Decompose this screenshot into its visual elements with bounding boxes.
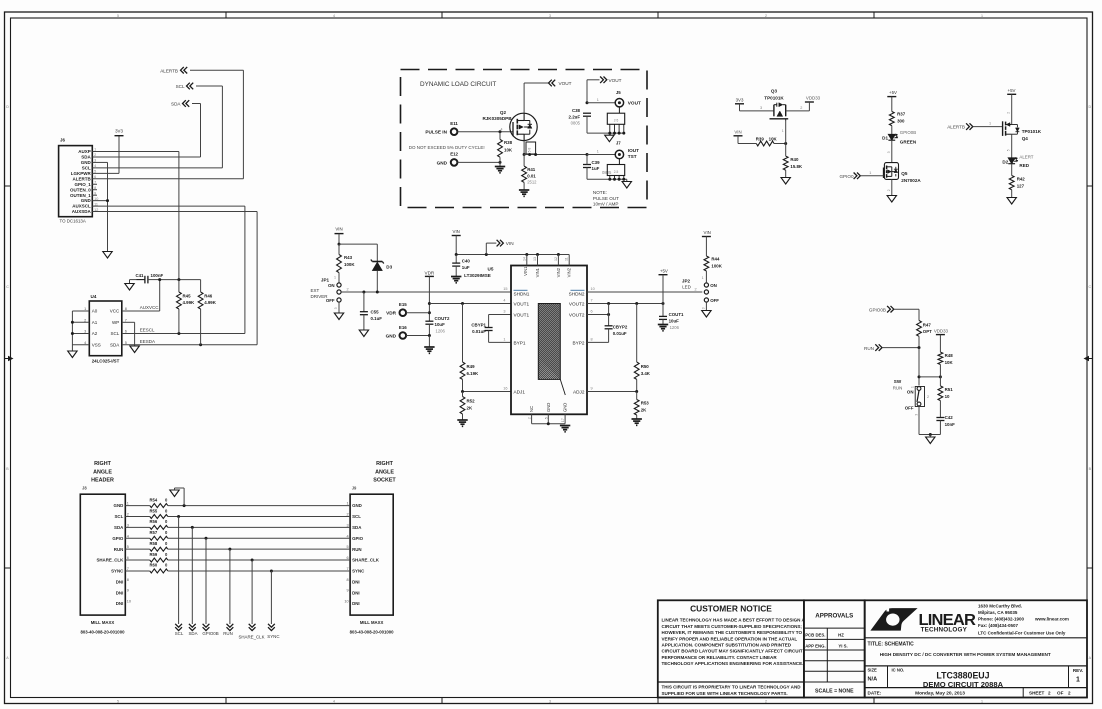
wire net SDA J8 to J9: [168, 526, 350, 529]
svg-text:RIGHT: RIGHT: [94, 461, 111, 467]
svg-text:ON: ON: [907, 390, 914, 395]
svg-text:E15: E15: [399, 302, 407, 307]
capacitor COUT1: [659, 304, 684, 330]
size labels: [868, 666, 905, 688]
turret E12: [450, 152, 458, 166]
svg-text:C: C: [6, 285, 9, 289]
turret E11: [450, 121, 458, 135]
svg-text:10: 10: [127, 600, 131, 604]
svg-text:PCB DES.: PCB DES.: [805, 633, 825, 638]
svg-text:SDA: SDA: [171, 102, 181, 107]
svg-text:SCL: SCL: [111, 331, 120, 336]
svg-text:AUXVCC: AUXVCC: [140, 305, 160, 310]
svg-text:SDA: SDA: [81, 155, 91, 160]
svg-text:REV.: REV.: [1073, 668, 1083, 673]
svg-text:A0: A0: [92, 309, 98, 314]
svg-text:DYNAMIC LOAD CIRCUIT: DYNAMIC LOAD CIRCUIT: [420, 81, 496, 88]
svg-text:1: 1: [334, 276, 336, 280]
svg-text:4: 4: [333, 14, 335, 18]
IC U5 pin SHDN2 label: [569, 290, 585, 296]
turret E15: [399, 302, 407, 316]
svg-text:THIS CIRCUIT IS PROPRIETARY TO: THIS CIRCUIT IS PROPRIETARY TO LINEAR TE…: [662, 685, 802, 690]
svg-text:1uF: 1uF: [462, 265, 470, 270]
svg-text:127: 127: [1017, 184, 1025, 189]
svg-text:1: 1: [981, 14, 983, 18]
svg-text:C55: C55: [371, 309, 380, 314]
power +5V at Q4: [1007, 88, 1016, 95]
ground under C40: [451, 277, 461, 283]
svg-text:3: 3: [127, 523, 129, 527]
approvals box: [804, 600, 865, 697]
svg-text:DNI: DNI: [116, 601, 124, 606]
label GND at E16: [386, 333, 397, 338]
svg-text:GPIO0B: GPIO0B: [900, 130, 916, 135]
svg-text:D1: D1: [882, 135, 888, 140]
wire Q3 drain to VDD33: [786, 102, 810, 111]
ground at U4 address pins: [68, 351, 77, 358]
svg-text:3: 3: [346, 523, 348, 527]
svg-text:TITLE: SCHEMATIC: TITLE: SCHEMATIC: [868, 641, 915, 647]
svg-text:R57: R57: [150, 530, 158, 535]
svg-text:0805: 0805: [571, 121, 581, 126]
wire ADJ2 pin9 net: [587, 387, 638, 394]
svg-text:AUXSCL: AUXSCL: [72, 204, 91, 209]
title schematic: [868, 641, 915, 647]
resistor R50: [634, 304, 651, 392]
svg-text:VOUT1: VOUT1: [514, 313, 530, 318]
svg-text:Monday, May 20, 2013: Monday, May 20, 2013: [915, 690, 965, 696]
svg-text:SIZE: SIZE: [868, 668, 878, 673]
wire U4 WP to ground: [122, 322, 135, 346]
IC U4 pin numbers: [84, 307, 127, 345]
wire VOUT arrow right branch: [586, 80, 600, 104]
wire R39 to Q3 gate node: [774, 121, 787, 145]
svg-text:DNI: DNI: [116, 590, 124, 595]
svg-text:VIN2: VIN2: [567, 267, 572, 277]
svg-text:ADJ1: ADJ1: [514, 390, 526, 395]
svg-text:R59: R59: [150, 552, 158, 557]
ground under COUT1: [658, 325, 668, 331]
wire E16 to ground rail: [406, 334, 431, 347]
svg-text:0.1uF: 0.1uF: [371, 316, 383, 321]
svg-text:1: 1: [346, 502, 348, 506]
svg-text:GPIO0B: GPIO0B: [869, 307, 886, 312]
power +5V rail: [659, 268, 668, 303]
svg-text:SHARE_CLK: SHARE_CLK: [238, 634, 264, 639]
svg-text:GND: GND: [114, 503, 124, 508]
svg-text:1: 1: [910, 386, 914, 388]
wire AUXSCL pin11 to EESCL: [92, 206, 245, 333]
node VDR rail: [425, 270, 435, 321]
wire AUXP pin1 to AUXVCC node: [92, 152, 179, 280]
svg-text:100K: 100K: [344, 262, 355, 267]
svg-text:5: 5: [117, 14, 119, 18]
IC U5 top pin stubs: [527, 255, 569, 266]
wire E11 to Q2 gate: [458, 127, 514, 133]
svg-text:TP0101K: TP0101K: [764, 95, 784, 100]
svg-text:VIN: VIN: [453, 229, 460, 234]
ground under R53: [632, 419, 642, 425]
svg-text:2: 2: [528, 417, 532, 419]
svg-text:Milpitas, CA 95035: Milpitas, CA 95035: [978, 610, 1018, 615]
connector J8 pin numbers: [127, 502, 131, 604]
svg-text:1: 1: [127, 502, 129, 506]
svg-text:PERFORMANCE OR RELIABILITY. C: PERFORMANCE OR RELIABILITY. CONTACT LINE…: [662, 655, 778, 660]
svg-text:TECHNOLOGY: TECHNOLOGY: [921, 627, 968, 634]
svg-text:2: 2: [927, 395, 929, 399]
wire source bus to J7: [524, 153, 615, 156]
node SDA arrow: [171, 100, 189, 107]
svg-text:Q4: Q4: [1022, 136, 1029, 141]
label DO NOT EXCEED 5% DUTY CYCLE!: [409, 145, 485, 150]
approvals APP ENG row: [805, 644, 847, 649]
node RUN arrow: [864, 344, 882, 351]
transistor Q3 TP0101K: [770, 103, 789, 121]
svg-text:TECHNOLOGY APPLICATIONS ENGINE: TECHNOLOGY APPLICATIONS ENGINEERING FOR …: [662, 661, 804, 666]
rev box: [1069, 666, 1084, 688]
svg-text:SCL: SCL: [176, 84, 185, 89]
svg-text:VSS: VSS: [92, 342, 101, 347]
svg-text:VOUT2: VOUT2: [569, 302, 585, 307]
svg-text:2.2uF: 2.2uF: [569, 114, 581, 119]
label Q5: [901, 171, 921, 183]
capacitor C38: [569, 108, 591, 133]
wire RUN to junction: [882, 346, 921, 349]
svg-text:TP0101K: TP0101K: [1022, 129, 1042, 134]
wire C38 J5 shield ground bus: [587, 132, 625, 135]
svg-text:SCALE = NONE: SCALE = NONE: [815, 689, 854, 695]
svg-text:APP ENG.: APP ENG.: [805, 644, 825, 649]
svg-text:GPIO0: GPIO0: [839, 174, 853, 179]
svg-text:3V3: 3V3: [736, 98, 744, 103]
svg-text:GPIO: GPIO: [112, 536, 124, 541]
svg-text:R49: R49: [467, 364, 476, 369]
capacitor C42: [936, 415, 955, 435]
wire SHARE_CLK drop to arrow: [251, 560, 253, 624]
svg-text:14: 14: [522, 257, 526, 261]
resistor R54 0 ohm: [125, 497, 168, 507]
turret E16: [399, 325, 407, 339]
resistor R48: [938, 335, 953, 377]
power 3V3 at J6: [115, 129, 124, 136]
svg-text:7: 7: [346, 567, 348, 571]
svg-text:ALERTB: ALERTB: [947, 125, 965, 130]
LED D2 RED: [1002, 154, 1033, 168]
svg-text:APPLICATION. COMPONENT SUBSTI: APPLICATION. COMPONENT SUBSTITUTION AND …: [662, 643, 792, 648]
svg-text:DRIVER: DRIVER: [311, 294, 329, 299]
svg-text:VDD33: VDD33: [934, 328, 949, 333]
resistor R45: [177, 280, 196, 334]
svg-text:DNI: DNI: [352, 601, 360, 606]
svg-text:1uF: 1uF: [592, 166, 600, 171]
power VIN at C40: [452, 229, 461, 236]
svg-text:TST: TST: [628, 154, 637, 159]
node SDA down arrow: [188, 624, 197, 636]
svg-text:SDA: SDA: [188, 631, 197, 636]
svg-text:HEADER: HEADER: [91, 478, 114, 484]
svg-text:CUSTOMER NOTICE: CUSTOMER NOTICE: [690, 604, 772, 614]
svg-text:2: 2: [346, 512, 348, 516]
svg-text:SHEET: SHEET: [1029, 690, 1045, 695]
svg-text:R48: R48: [945, 353, 954, 358]
zener diode D3: [371, 260, 393, 293]
switch SW RUN: [910, 386, 929, 416]
transistor Q4 TP0101K: [1003, 121, 1020, 136]
jack J5 shield pins box: [607, 107, 624, 133]
svg-text:Q5: Q5: [901, 171, 908, 176]
svg-text:GPIO_1: GPIO_1: [75, 182, 92, 187]
svg-text:R40: R40: [790, 157, 799, 162]
svg-text:WP: WP: [112, 320, 119, 325]
wire VOUT2 pin7 net: [587, 299, 665, 306]
IC U4 right pin names: [110, 309, 120, 348]
wire net GND J8 to J9: [168, 504, 350, 507]
svg-text:BYP2: BYP2: [573, 341, 585, 346]
part number LTC3880EUJ: [923, 670, 1004, 689]
stub OUTEN_1 pin9: [92, 194, 97, 196]
node GPIO0 arrow: [839, 173, 860, 180]
svg-text:2-5: 2-5: [614, 170, 619, 174]
svg-text:24LC025-I/ST: 24LC025-I/ST: [92, 359, 120, 364]
resistor R49: [460, 304, 479, 392]
svg-text:OPT: OPT: [923, 329, 932, 334]
svg-text:2: 2: [84, 318, 86, 322]
svg-text:2: 2: [1007, 112, 1011, 114]
wire RUN drop to arrow: [229, 549, 231, 624]
svg-text:EESDA: EESDA: [140, 339, 155, 344]
IC U5 bottom pin stubs: [532, 414, 566, 425]
svg-text:C38: C38: [572, 108, 581, 113]
IC U5 right pin labels: [569, 302, 585, 395]
svg-text:803-40-008-20-001000: 803-40-008-20-001000: [81, 629, 126, 634]
connector J6 pin numbers 1-12: [94, 148, 98, 212]
svg-text:R43: R43: [344, 255, 353, 260]
svg-text:6: 6: [127, 556, 129, 560]
capacitor C41: [135, 273, 163, 283]
label MILL MAXX J8: [81, 620, 126, 635]
label Q4: [1022, 129, 1042, 141]
node ALERTB arrow: [160, 67, 187, 74]
svg-text:16: 16: [503, 387, 507, 391]
ground under R38: [495, 167, 505, 173]
wire BYP2 pin8 net: [587, 337, 609, 342]
svg-text:BYP1: BYP1: [514, 341, 526, 346]
node VOUT arrow right: [600, 77, 622, 84]
ground at C55: [359, 330, 368, 337]
svg-text:IOUT: IOUT: [628, 148, 639, 153]
svg-text:SCL: SCL: [175, 631, 184, 636]
svg-text:GND: GND: [437, 160, 448, 165]
svg-text:2K: 2K: [641, 407, 647, 412]
svg-text:RUN: RUN: [352, 547, 362, 552]
label TO DC1613A: [60, 219, 86, 224]
wire SCL drop to arrow: [178, 516, 180, 624]
svg-text:10nF: 10nF: [945, 422, 956, 427]
Linear Technology logo: [870, 608, 976, 634]
svg-text:6: 6: [346, 556, 348, 560]
svg-text:SYNC: SYNC: [111, 569, 124, 574]
svg-text:C41: C41: [135, 273, 144, 278]
svg-text:11: 11: [565, 257, 569, 261]
svg-text:VDD33: VDD33: [806, 96, 821, 101]
svg-text:R51: R51: [945, 387, 954, 392]
svg-text:OFF: OFF: [905, 405, 914, 410]
node VOUT arrow left: [549, 80, 572, 87]
svg-text:2: 2: [127, 512, 129, 516]
title block outer box: [658, 600, 804, 697]
svg-text:VIN1: VIN1: [535, 267, 540, 277]
svg-text:CBYP1: CBYP1: [471, 322, 486, 327]
svg-text:RUN: RUN: [893, 385, 903, 390]
jumper JP1: [321, 276, 349, 304]
IC U5 top pin numbers: [522, 257, 568, 261]
svg-text:5: 5: [125, 341, 127, 345]
node SCL down arrow: [175, 624, 184, 636]
svg-text:LTC Confidential-For Customer: LTC Confidential-For Customer Use Only: [978, 630, 1066, 635]
svg-text:COUT1: COUT1: [669, 312, 684, 317]
label EESDA: [140, 339, 155, 344]
svg-text:8: 8: [127, 578, 129, 582]
wire AUXSDA pin12 to EESDA: [92, 212, 257, 345]
power VDD33 at R48: [934, 328, 949, 334]
wire SHDN2 pin10 to JP2: [587, 287, 702, 292]
resistor R52: [460, 392, 475, 421]
svg-text:3: 3: [84, 330, 86, 334]
svg-text:2: 2: [765, 14, 767, 18]
resistor R51: [938, 377, 953, 418]
label RIGHT ANGLE SOCKET: [373, 461, 396, 484]
svg-text:10: 10: [591, 287, 595, 291]
LED D1 GREEN: [882, 130, 917, 144]
svg-text:RJK0305DPB: RJK0305DPB: [482, 116, 512, 121]
wire LGKPWR pin5 to 3V3: [92, 136, 119, 174]
svg-text:8: 8: [591, 337, 593, 341]
customer notice footer: [662, 685, 802, 696]
svg-text:YI S.: YI S.: [838, 644, 847, 649]
svg-text:4: 4: [333, 700, 335, 704]
svg-text:1: 1: [503, 337, 505, 341]
svg-text:4.99K: 4.99K: [183, 300, 196, 305]
power VIN at R43: [335, 227, 344, 234]
node VIN arrow: [497, 240, 514, 247]
svg-text:OFF: OFF: [710, 298, 719, 303]
ground at J6 GND: [103, 252, 112, 259]
labels ON OFF at SW: [905, 390, 914, 411]
approvals PCB DES row: [805, 633, 844, 638]
svg-text:HIGH DENSITY DC / DC CONVERTER: HIGH DENSITY DC / DC CONVERTER WITH POWE…: [880, 652, 1051, 657]
wire SW to ground bus: [919, 406, 940, 437]
capacitor C55: [360, 292, 382, 330]
wire Q2 source to sense bus: [523, 141, 526, 156]
svg-text:OUTEN_1: OUTEN_1: [70, 193, 91, 198]
wire GND pin10 junction: [92, 199, 109, 202]
svg-text:1206: 1206: [670, 325, 680, 330]
svg-text:0.01: 0.01: [527, 173, 536, 178]
wire ADJ1 pin16 net: [461, 387, 511, 394]
svg-text:R58: R58: [150, 541, 158, 546]
connector J9 pin names: [352, 503, 380, 606]
svg-text:SDA: SDA: [110, 342, 119, 347]
svg-text:ON: ON: [328, 283, 335, 288]
svg-text:R38: R38: [504, 140, 513, 145]
wire BYP1 pin1 net: [489, 337, 511, 342]
resistor R37: [889, 97, 905, 135]
svg-text:R37: R37: [897, 111, 906, 116]
ground flag at GND net: [170, 488, 184, 506]
wire JP2 OFF to ground: [702, 302, 707, 310]
svg-text:0.01uF: 0.01uF: [613, 331, 627, 336]
customer notice body text: [662, 618, 806, 666]
resistor R38: [498, 132, 513, 163]
svg-text:GPIO: GPIO: [352, 536, 364, 541]
svg-text:JP1: JP1: [321, 278, 330, 283]
node SCL arrow: [176, 83, 194, 90]
jack J5: [615, 90, 641, 107]
svg-text:LTC3880EUJ: LTC3880EUJ: [936, 670, 989, 680]
wire D1 to Q5 drain: [887, 140, 892, 162]
svg-text:9: 9: [591, 387, 593, 391]
ground at U4 WP: [130, 346, 139, 353]
wire VOUT1 pin4 net: [429, 299, 511, 306]
wire SDA drop to arrow: [191, 527, 193, 624]
label Q2: [482, 110, 512, 121]
svg-text:MILL MAXX: MILL MAXX: [360, 620, 384, 625]
capacitor CBYP1: [471, 322, 492, 342]
wire VIN rail to U5 VIN pins: [455, 236, 570, 257]
wire U4 VCC to AUXVCC node: [122, 280, 160, 311]
connector J8 pin names: [96, 503, 124, 606]
IC U5 LT3029 body: [511, 266, 587, 415]
label SW RUN: [893, 379, 903, 390]
label RIGHT ANGLE HEADER: [91, 461, 114, 484]
svg-text:17: 17: [561, 418, 565, 422]
svg-text:R50: R50: [641, 364, 650, 369]
svg-text:2: 2: [1068, 690, 1071, 695]
svg-text:8: 8: [125, 307, 127, 311]
svg-text:100K: 100K: [711, 264, 722, 269]
svg-text:R42: R42: [1017, 177, 1026, 182]
wire GPIO drop to arrow: [205, 538, 207, 624]
svg-text:VIN: VIN: [335, 227, 342, 232]
svg-text:CIRCUIT BOARD LAYOUT MAY SIGNI: CIRCUIT BOARD LAYOUT MAY SIGNIFICANTLY A…: [662, 649, 803, 654]
svg-text:SDA: SDA: [114, 525, 124, 530]
wire Q2 drain to VOUT: [524, 83, 548, 113]
svg-text:AUXSDA: AUXSDA: [72, 209, 92, 214]
svg-text:U4: U4: [91, 294, 97, 299]
svg-text:GND: GND: [81, 198, 92, 203]
svg-text:1: 1: [989, 122, 991, 126]
svg-text:Q2: Q2: [500, 110, 507, 115]
svg-text:GND: GND: [352, 503, 362, 508]
stub OUTEN_0 pin8: [92, 189, 97, 191]
ground under SW: [926, 437, 935, 444]
svg-text:7: 7: [127, 567, 129, 571]
IC U5 bottom pin names: [529, 403, 568, 412]
svg-text:9: 9: [127, 589, 129, 593]
wire SHDN1 net JP1 to U5 pin15: [341, 287, 511, 294]
title description: [880, 652, 1051, 657]
connector J6: [59, 146, 93, 217]
svg-text:R60: R60: [150, 563, 158, 568]
svg-text:MILL MAXX: MILL MAXX: [91, 620, 115, 625]
svg-text:3.4K: 3.4K: [641, 371, 651, 376]
wire Q4 drain to D2: [1007, 134, 1012, 158]
wire RUN node down to switch: [918, 348, 921, 386]
svg-text:VIN: VIN: [734, 129, 741, 134]
svg-text:GPIO0B: GPIO0B: [202, 631, 218, 636]
svg-text:E12: E12: [450, 152, 458, 157]
svg-text:1: 1: [597, 150, 599, 154]
